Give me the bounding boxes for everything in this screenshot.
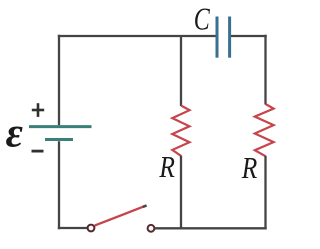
svg-text:ε: ε <box>6 110 23 156</box>
switch left terminal (open circle) <box>88 225 95 232</box>
wire top (left rail to capacitor left plate, through top junction) <box>58 35 216 37</box>
capacitor right plate (blue) <box>228 17 231 58</box>
resistor R (middle branch, red zigzag) <box>172 106 189 156</box>
wire capacitor right plate to top-right corner <box>231 35 267 37</box>
battery negative plate (short, teal) <box>45 138 73 141</box>
label - (battery negative terminal) <box>32 150 44 153</box>
capacitor C <box>217 17 230 58</box>
wire right rail upper (top-right corner down to resistor) <box>264 35 266 105</box>
wire right rail lower (resistor down to bottom-right corner) <box>264 156 266 229</box>
battery EMF source <box>29 127 92 140</box>
capacitor left plate (blue) <box>216 17 219 58</box>
wire left rail lower (battery - plate down to bottom-left corner) <box>58 141 60 229</box>
wire middle branch upper (top junction down to resistor) <box>180 36 182 106</box>
wire bottom right (switch right terminal to bottom-right corner, through bottom junction) <box>155 227 267 229</box>
switch lever dark tip <box>143 205 147 207</box>
resistor R (right branch, red zigzag) <box>255 104 274 156</box>
wire middle branch lower (resistor down to bottom junction) <box>180 156 182 229</box>
wire left rail upper (top-left corner down to battery + plate) <box>58 35 60 126</box>
switch S (open) <box>88 205 155 231</box>
svg-text:C: C <box>194 3 211 38</box>
battery positive plate (long, teal) <box>29 125 92 128</box>
svg-text:R: R <box>241 152 257 186</box>
svg-text:R: R <box>159 151 175 185</box>
switch lever (red, open position) <box>95 206 145 225</box>
wire bottom left (corner to switch left terminal) <box>58 227 87 229</box>
label + (battery positive terminal) <box>32 103 44 117</box>
switch right terminal (open circle) <box>148 225 155 232</box>
